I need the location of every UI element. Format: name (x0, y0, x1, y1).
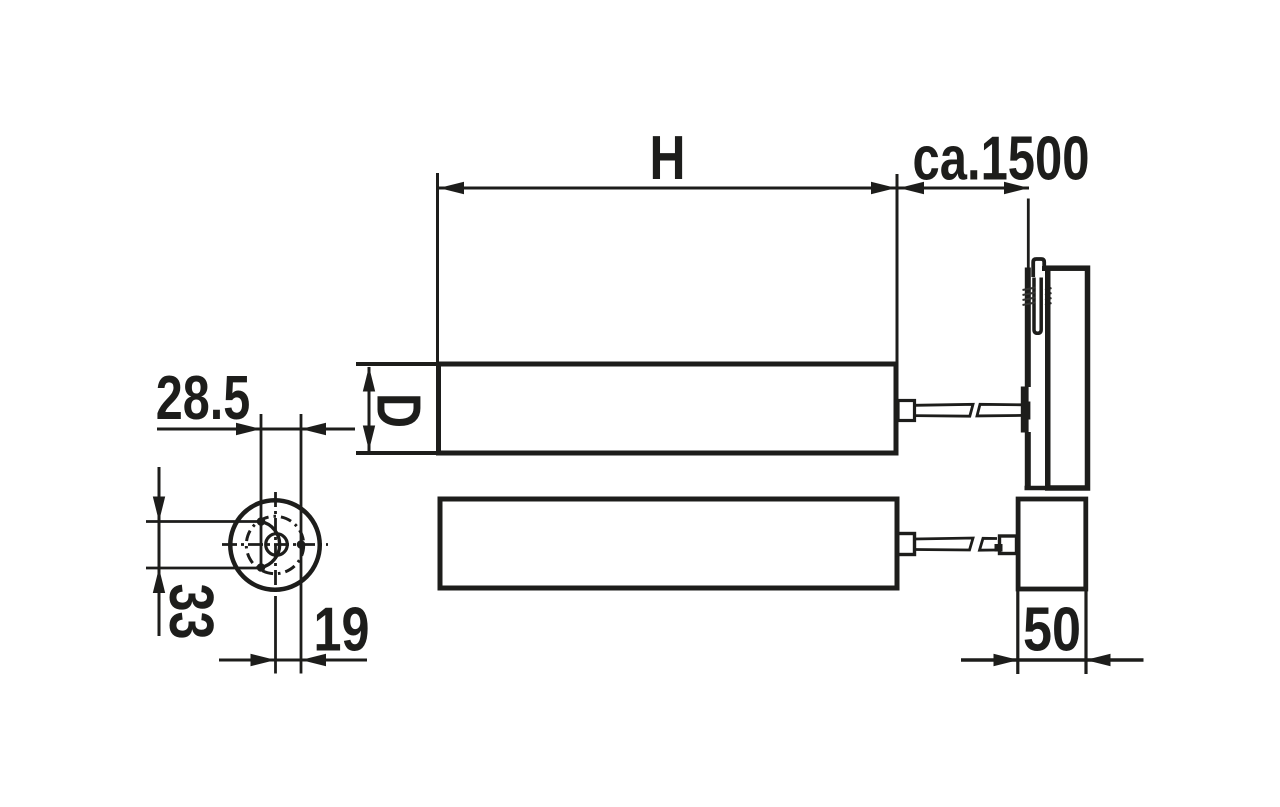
dimension 33 dim-line (158, 467, 161, 636)
dimension 50 left arrow (994, 654, 1019, 666)
bracket top tab (1033, 259, 1044, 277)
lower lead wire segment 1 (915, 538, 974, 550)
node dot upper left (257, 517, 266, 526)
svg-text:ca.1500: ca.1500 (913, 125, 1090, 194)
dimension 19 left arrow (251, 654, 276, 666)
end view vertical centerline (274, 492, 277, 597)
upper lead wire segment 1 (915, 404, 974, 416)
extension line x=301 through circle (300, 414, 303, 674)
tube side view upper (439, 364, 897, 453)
extension line from centerline down to 19 dim (274, 597, 277, 674)
upper terminal pin (898, 401, 915, 421)
node dot lower left (257, 563, 266, 572)
dimension 28.5 dim-line (157, 428, 355, 431)
end view clip arc (261, 522, 280, 568)
end view horizontal centerline (222, 543, 328, 546)
dimension 33 down arrow (153, 497, 165, 522)
dimension H right arrow (871, 182, 896, 194)
end view outer circle (230, 500, 320, 590)
bracket body top edge step to tab (1042, 266, 1048, 271)
bracket body (1048, 268, 1088, 488)
dimension H dim-line (439, 187, 1029, 190)
dimension 19 dim-line (219, 659, 367, 662)
dimension 28.5 right arrow (301, 423, 326, 435)
dimension ca.1500 left arrow (899, 182, 924, 194)
svg-text:50: 50 (1023, 596, 1081, 665)
lower terminal pin (897, 534, 915, 555)
dimension 33 upper extension line (146, 520, 259, 523)
lower wire crimp (995, 544, 1003, 552)
dimension D down arrow (363, 426, 375, 451)
bracket bottom edge across plate (1025, 486, 1048, 491)
bracket plate hatch marks (1023, 288, 1052, 306)
svg-text:D: D (364, 393, 433, 428)
svg-text:H: H (650, 124, 686, 193)
svg-text:19: 19 (314, 596, 370, 665)
upper lead wire segment 2 (977, 404, 1023, 416)
end view bolt circle (dash-dot) (246, 516, 303, 573)
lower lead wire segment 2 (980, 538, 998, 550)
dimension D up arrow (363, 367, 375, 392)
bracket plate left edge lower segment (1025, 432, 1031, 490)
svg-text:33: 33 (156, 584, 225, 640)
dimension H left extension line (436, 173, 439, 364)
dimension 50 right arrow (1086, 654, 1111, 666)
end view inner circle (266, 534, 288, 556)
dimension D bottom extension line (356, 451, 436, 455)
dimension ca.1500 right arrow (1004, 182, 1029, 194)
tube side view lower (440, 499, 897, 588)
mounting block (1018, 499, 1086, 589)
dimension 50 left extension line (1016, 591, 1019, 674)
dimension 33 lower extension line (146, 567, 259, 570)
svg-text:28.5: 28.5 (156, 364, 251, 433)
dimension 19 right arrow (301, 654, 326, 666)
dimension H left arrow (439, 182, 464, 194)
bracket keyhole slot (1034, 278, 1041, 334)
lower wire ferrule (1000, 536, 1017, 554)
dimension D dim-line (368, 367, 371, 451)
bracket plate left edge upper segment (1025, 268, 1031, 388)
shared extension line at tube right end (896, 174, 899, 364)
dimension 50 dim-line (961, 658, 1144, 661)
node dot right (297, 540, 306, 549)
dimension 28.5 left arrow (236, 423, 261, 435)
dimension D top extension line (356, 362, 436, 366)
extension line x=261 (260, 414, 263, 568)
dimension 33 up arrow (153, 568, 165, 593)
upper wire attachment lump on bracket plate (1021, 387, 1031, 433)
dimension 50 right extension line (1084, 591, 1087, 674)
dimension ca.1500 right extension line (1027, 199, 1030, 269)
